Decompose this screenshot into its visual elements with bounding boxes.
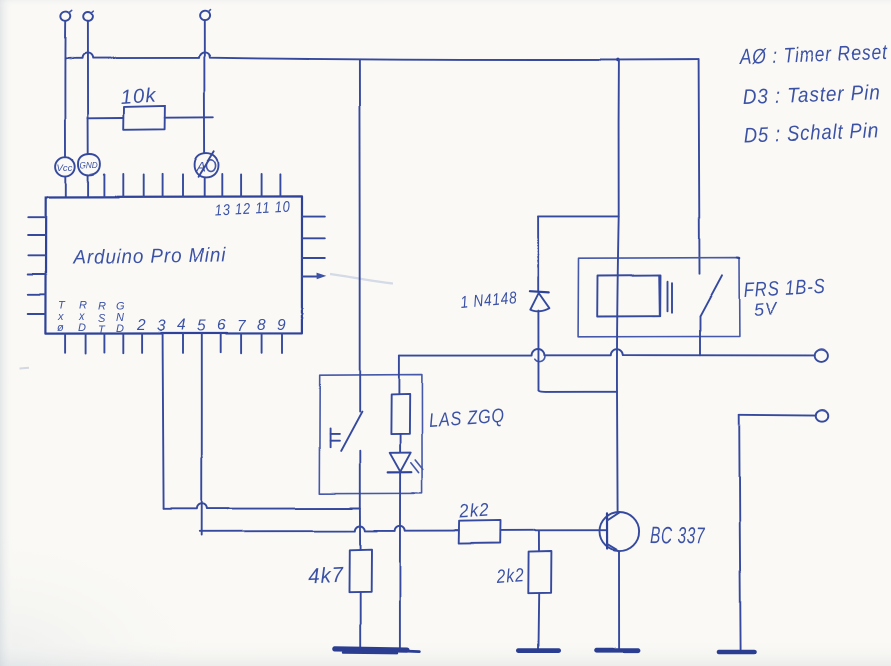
label pin numbers 13 12 11 10 — [214, 199, 291, 220]
ground GND2 — [519, 648, 559, 653]
note D5 Schalt Pin — [743, 119, 879, 147]
svg-text:R: R — [98, 301, 106, 313]
relay K1 coil right edge redraw — [658, 275, 661, 316]
resistor R3 2k2 series — [459, 520, 501, 543]
svg-text:BC 337: BC 337 — [650, 522, 706, 549]
wire output run to terminal — [399, 349, 815, 356]
pin circle A0 — [195, 151, 219, 177]
pin circle GND — [78, 154, 100, 175]
relay K1 core bars — [668, 282, 673, 313]
terminal GND top — [84, 11, 94, 21]
wire GND circle to U1 — [87, 175, 89, 197]
terminal VCC top — [60, 10, 72, 21]
wire D5 run to base resistor — [200, 526, 459, 532]
wire D3 run to switch node — [164, 504, 360, 509]
note D3 Taster Pin — [742, 81, 881, 109]
svg-text:FRS 1B-S: FRS 1B-S — [743, 275, 826, 302]
terminal output 2 — [816, 409, 829, 421]
LED D2 — [388, 453, 423, 473]
note A0 Timer Reset — [738, 41, 889, 69]
switch S1 blade and contact — [330, 412, 362, 451]
U1 left pins — [28, 217, 46, 314]
svg-text:3: 3 — [157, 318, 166, 335]
svg-text:4: 4 — [177, 317, 186, 334]
wire GND terminal to pin circle — [87, 21, 89, 154]
relay K1 switch blade — [700, 275, 722, 316]
relay K1 coil — [597, 275, 660, 317]
wire D3 pin down — [163, 334, 164, 509]
svg-text:D5 : Schalt Pin: D5 : Schalt Pin — [743, 119, 879, 147]
wire output node corner — [398, 356, 400, 395]
wire diode branch down — [537, 217, 539, 291]
wire R3 to Q1 base — [500, 529, 607, 531]
wire GND line to R1 — [88, 117, 124, 119]
ground GND3 — [597, 648, 638, 653]
svg-text:2k2: 2k2 — [458, 500, 490, 523]
wire output 2 down to ground — [739, 414, 740, 649]
terminal output 1 — [815, 349, 828, 362]
U1 bottom pins — [65, 334, 282, 354]
wire VCC terminal to pin circle — [64, 21, 66, 157]
wire diode top branch — [538, 216, 619, 218]
relay K1 corner pen dot — [737, 257, 739, 260]
wire D5 pin down — [201, 334, 203, 535]
wire coil line to Q1 collector — [616, 392, 619, 513]
svg-text:9: 9 — [277, 317, 286, 334]
wire R5 to ground — [538, 593, 541, 648]
junction rail-coil blob — [616, 58, 620, 62]
wire Q1 emitter to ground — [618, 551, 620, 648]
svg-text:7: 7 — [237, 318, 247, 335]
wire VCC rail to coil line — [618, 60, 620, 217]
ground GND1 — [335, 649, 420, 653]
wire R4 to ground — [359, 592, 361, 647]
wire D1 anode to coil line — [539, 390, 618, 392]
wire LED cathode to ground — [399, 473, 401, 648]
svg-text:Vcc: Vcc — [57, 163, 73, 174]
svg-text:10k: 10k — [120, 85, 157, 109]
svg-text:ø: ø — [57, 322, 64, 334]
svg-text:5V: 5V — [753, 298, 780, 320]
terminal A0 top — [199, 10, 211, 21]
wire rail corner to relay switch — [698, 60, 701, 274]
wire A0 terminal to pin circle — [203, 20, 205, 153]
pin circle VCC — [56, 157, 76, 176]
wire VCC rail to S1 switch — [358, 60, 360, 412]
diode D1 1N4148 — [530, 291, 550, 311]
stray pencil dash — [20, 367, 30, 370]
wire hop curl at diode crossing — [535, 356, 545, 361]
switch module S1 LAS ZGQ body — [319, 375, 422, 494]
wire output 2 run — [739, 413, 816, 416]
wire coil line through relay — [617, 217, 619, 392]
svg-text:5: 5 — [197, 318, 206, 335]
IC U1 Arduino Pro Mini body — [45, 196, 302, 333]
resistor R2 LED series — [391, 394, 410, 434]
wire R2 to LED — [399, 434, 401, 453]
wire A0 circle to U1 — [204, 178, 206, 197]
resistor R1 10k — [124, 106, 166, 130]
transistor Q1 BC337 — [600, 512, 640, 551]
svg-text:Arduino Pro Mini: Arduino Pro Mini — [72, 244, 227, 269]
wire Vcc circle to U1 — [65, 176, 67, 196]
svg-text:8: 8 — [257, 317, 266, 334]
wire D1 anode down — [537, 311, 539, 391]
wire K1 switch to output wire — [699, 316, 701, 355]
svg-text:2: 2 — [136, 317, 146, 334]
label digital pins 2-9 — [136, 317, 286, 335]
U1 right pins — [302, 217, 325, 258]
relay K1 body — [578, 258, 739, 337]
wire node D3 to R4 — [359, 509, 361, 550]
resistor R4 4k7 — [349, 549, 372, 592]
svg-text:D: D — [78, 322, 86, 334]
U1 right arrow pin — [302, 273, 393, 284]
ground GND4 — [719, 650, 754, 655]
wire R1 to A0 line — [165, 116, 213, 118]
wire VCC top rail — [66, 52, 699, 60]
svg-text:4k7: 4k7 — [307, 563, 344, 589]
svg-text:6: 6 — [217, 317, 226, 334]
svg-text:D3 : Taster Pin: D3 : Taster Pin — [742, 81, 881, 109]
U1 bottom pin labels TX RXD RST GND — [57, 300, 125, 336]
resistor R5 2k2 pulldown — [528, 551, 551, 593]
U1 top pins — [104, 174, 280, 197]
wire S1 lower terminal to node D3 — [359, 451, 361, 509]
wire base node to R5 — [538, 531, 540, 552]
svg-text:GND: GND — [80, 161, 98, 170]
svg-text:2k2: 2k2 — [495, 565, 525, 588]
